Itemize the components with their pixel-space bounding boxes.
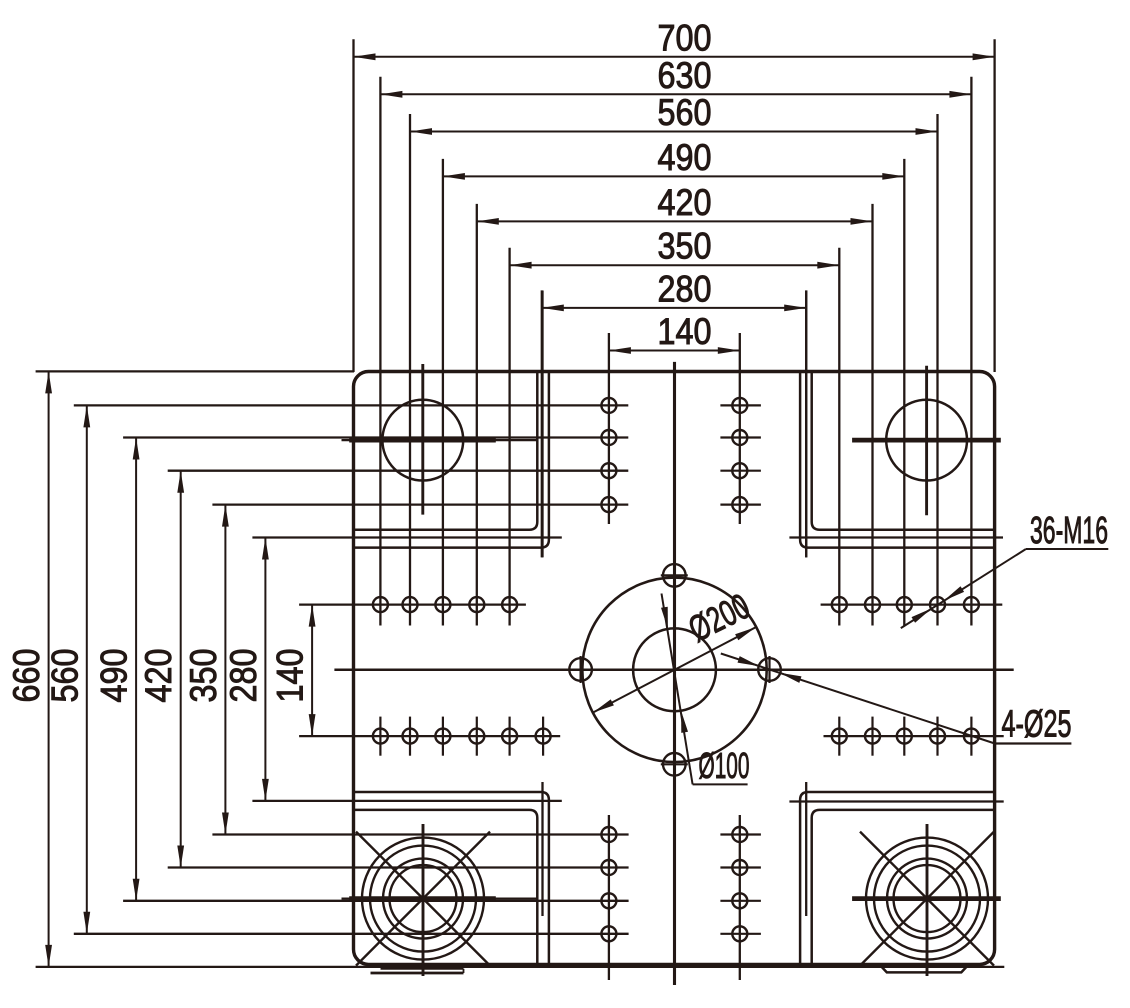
bottom-right pocket horizontal edge line <box>789 800 1003 802</box>
left dimension 420 <box>138 471 628 868</box>
left dimension 140 <box>270 605 561 737</box>
top-left tie-bar bore <box>342 364 537 515</box>
top dimension 140 <box>609 311 740 524</box>
left dimension 490 <box>94 438 629 901</box>
svg-text:Ø100: Ø100 <box>699 745 750 786</box>
top dimension 280 <box>542 268 806 557</box>
locating ring bore phi200 <box>582 578 766 762</box>
bottom-right pocket edge line <box>805 782 807 916</box>
svg-text:280: 280 <box>658 268 712 309</box>
left dimension 660 <box>6 371 1004 967</box>
left dimension 560 <box>44 405 628 933</box>
top dimension 560 <box>410 92 938 626</box>
horizontal centerline <box>334 669 1013 672</box>
top dimension 700 <box>354 17 995 372</box>
svg-text:350: 350 <box>658 226 712 267</box>
top dimension 420 <box>477 182 873 626</box>
svg-text:140: 140 <box>270 649 311 703</box>
36-M16 leader and label <box>901 510 1109 628</box>
svg-text:490: 490 <box>94 649 135 703</box>
bottom bolt hole columns M16 <box>601 815 761 980</box>
svg-text:140: 140 <box>658 311 712 352</box>
top-right pocket edge line <box>805 291 807 558</box>
phi200 diameter dimension <box>593 585 756 712</box>
vertical centerline <box>673 362 676 985</box>
phi25 hole top <box>661 564 688 587</box>
top dimension 630 <box>380 55 971 626</box>
top-right pocket horizontal edge line <box>789 536 1003 538</box>
left bolt hole rows M16 <box>373 597 551 756</box>
4-phi25 leader and label <box>721 654 1072 746</box>
platen plate outline <box>354 372 995 965</box>
svg-text:700: 700 <box>658 17 712 58</box>
phi25 hole left <box>569 656 592 683</box>
svg-text:280: 280 <box>223 649 264 703</box>
top-right tie-bar bore <box>852 366 1001 516</box>
phi100 diameter dimension <box>661 594 750 787</box>
phi25 hole bottom <box>661 753 688 776</box>
top-right corner pocket contour <box>800 372 994 548</box>
right mounting foot <box>881 966 968 973</box>
svg-text:36-M16: 36-M16 <box>1030 510 1108 552</box>
left mounting foot <box>371 969 464 973</box>
svg-text:560: 560 <box>44 649 85 703</box>
top-left pocket edge line <box>541 291 543 558</box>
bottom-left corner pocket contour <box>354 792 549 965</box>
svg-text:560: 560 <box>658 92 712 133</box>
nozzle bore phi100 <box>633 628 716 711</box>
top-left corner pocket contour <box>354 372 549 548</box>
top dimension 350 <box>510 226 840 626</box>
right bolt hole rows M16 <box>821 597 1004 756</box>
top dimension 490 <box>443 137 904 626</box>
bottom-left pocket edge line <box>541 782 543 916</box>
bottom-left tie-bar bore with nut circles and cross <box>342 824 537 976</box>
svg-text:490: 490 <box>658 137 712 178</box>
bottom-right corner pocket contour <box>800 792 994 965</box>
svg-text:350: 350 <box>183 649 224 703</box>
bottom-right tie-bar bore with nut circles and cross <box>852 824 1001 976</box>
left dimension 350 <box>183 505 629 835</box>
svg-text:4-Ø25: 4-Ø25 <box>1002 704 1072 746</box>
left dimension 280 <box>223 538 562 801</box>
svg-text:420: 420 <box>658 182 712 223</box>
phi25 hole right <box>758 656 781 683</box>
top bolt hole columns M16 <box>601 398 761 512</box>
svg-text:660: 660 <box>6 649 47 703</box>
svg-text:630: 630 <box>658 55 712 96</box>
svg-text:420: 420 <box>138 649 179 703</box>
